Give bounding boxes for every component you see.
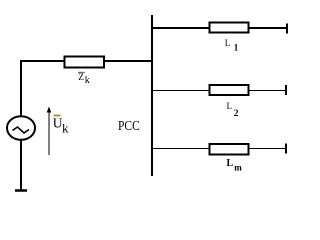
svg-text:L: L [225, 38, 231, 48]
svg-text:k: k [62, 121, 69, 136]
svg-text:L: L [227, 101, 233, 111]
svg-text:2: 2 [234, 109, 239, 119]
svg-text:L: L [227, 158, 234, 169]
svg-text:PCC: PCC [118, 119, 140, 134]
svg-text:m: m [234, 162, 242, 172]
svg-text:Z: Z [78, 73, 84, 83]
svg-text:1: 1 [234, 43, 239, 53]
svg-text:k: k [85, 75, 90, 86]
